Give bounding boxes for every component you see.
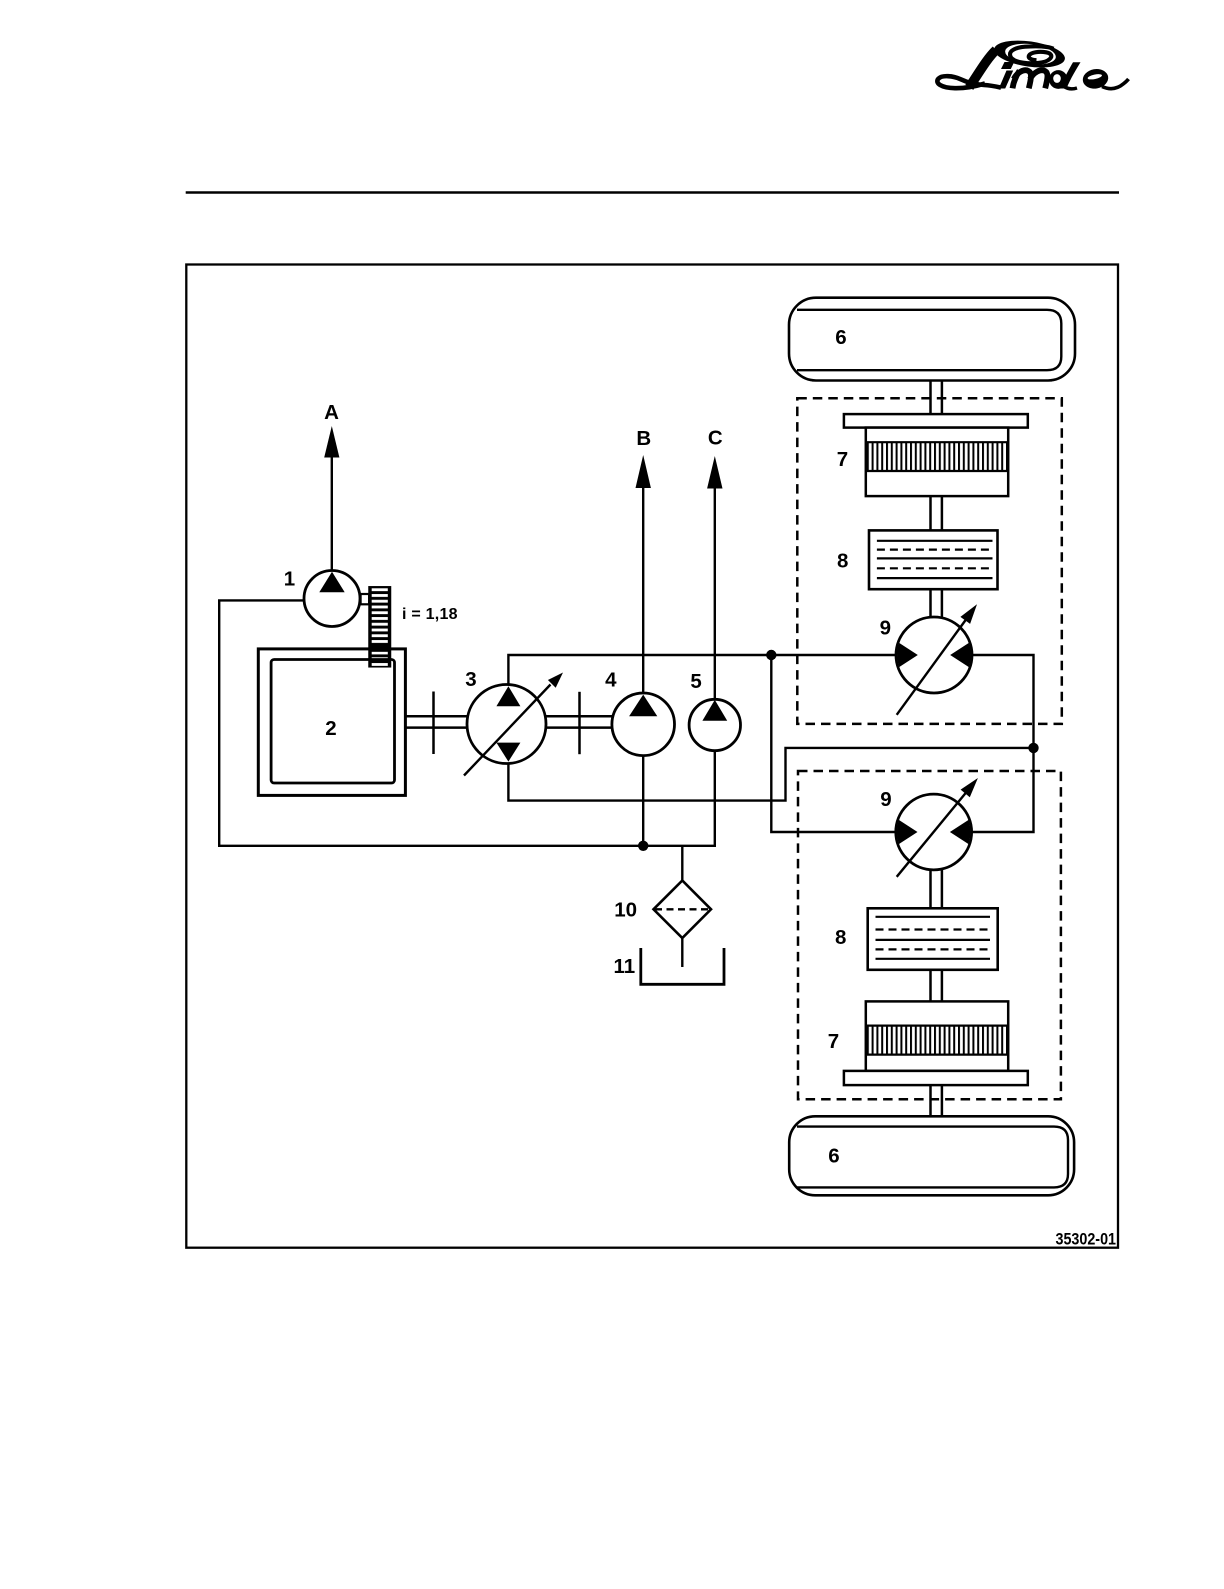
svg-text:i = 1,18: i = 1,18: [402, 606, 458, 623]
svg-text:7: 7: [828, 1030, 839, 1053]
svg-text:8: 8: [837, 550, 848, 573]
svg-text:8: 8: [835, 926, 846, 949]
svg-text:11: 11: [613, 955, 635, 978]
svg-text:9: 9: [880, 616, 891, 639]
svg-text:3: 3: [465, 668, 476, 691]
svg-text:5: 5: [690, 670, 701, 693]
svg-text:6: 6: [835, 326, 846, 349]
svg-text:4: 4: [605, 669, 617, 692]
svg-text:6: 6: [828, 1145, 839, 1168]
svg-text:2: 2: [325, 717, 336, 740]
svg-text:1: 1: [284, 567, 295, 590]
svg-text:C: C: [708, 426, 723, 449]
svg-text:10: 10: [614, 899, 637, 922]
svg-text:A: A: [324, 401, 339, 424]
svg-text:7: 7: [837, 448, 848, 471]
svg-text:B: B: [636, 427, 651, 450]
svg-text:9: 9: [880, 788, 891, 811]
svg-text:35302-01: 35302-01: [1056, 1231, 1117, 1249]
